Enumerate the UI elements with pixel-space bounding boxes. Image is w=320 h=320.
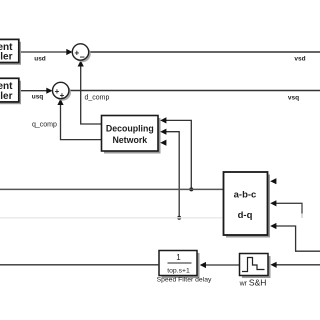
wire d_comp: decoupling network left port up into sum1 minus input [78,60,102,124]
svg-text:1: 1 [176,253,181,262]
svg-text:+: + [60,91,65,100]
svg-text:vsd: vsd [294,56,305,63]
wire: right edge into S&H input [270,262,320,268]
junction dot on bus2 [177,216,181,220]
wire: abc input c from right edge [270,223,320,251]
block: current controller 1 (cut off at left edge) [0,39,21,64]
svg-text:d-q: d-q [238,210,253,221]
block: speed filter transfer function 1/(top.s+1) [159,251,200,279]
wire usq: controller2 to sum2 [19,88,53,94]
wire: abc input b from right, fading down [270,200,302,218]
svg-text:vsq: vsq [288,95,299,102]
svg-text:a-b-c: a-b-c [234,190,257,201]
wire bus1: abc-dq output d to left edge [0,188,224,190]
junction dot on bus1 [189,187,193,191]
wire vsd: sum1 output to right edge [89,51,320,53]
svg-text:d_comp: d_comp [85,95,110,102]
svg-text:–: – [80,52,85,62]
wire: decoupling input 2 from bus2 tap [160,129,179,218]
wire: abc input a (stub arrow) [270,178,276,184]
svg-text:top.s+1: top.s+1 [167,268,190,275]
svg-text:Decoupling: Decoupling [106,124,154,134]
wire usd: controller1 to sum1 [19,49,73,55]
wire vsq: sum2 output to right edge [69,90,320,92]
svg-text:usq: usq [32,94,44,101]
wire: speed filter output to left edge [0,264,159,266]
wire: decoupling input 1 from bus1 tap [160,117,191,189]
wire bus2: abc-dq output q to left edge (very faint) [0,217,224,219]
svg-text:q_comp: q_comp [32,122,57,129]
svg-text:usd: usd [34,56,46,63]
sum junction S1 [72,44,90,62]
block: a-b-c to d-q transform [224,172,271,238]
svg-text:+: + [74,48,79,57]
wire: S&H output to speed filter input [200,262,240,268]
block: current controller 2 (cut off at left edge) [0,78,21,104]
svg-text:oller: oller [0,52,13,63]
sum junction S2 [53,82,71,100]
svg-text:Speed Filter delay: Speed Filter delay [157,277,212,284]
block: Decoupling Network [102,116,161,154]
svg-text:oller: oller [0,91,13,102]
svg-text:Network: Network [112,135,147,145]
wire stub: decoupling input 3 (faint source) [160,140,166,146]
block: wr sample and hold [240,254,271,279]
wire q_comp: decoupling network left port up into sum2 plus input [57,99,101,140]
